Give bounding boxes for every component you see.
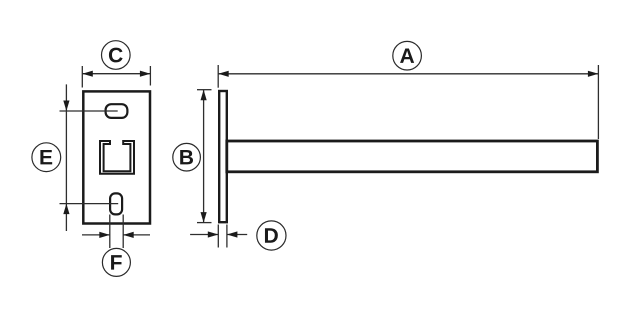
front view: top horizontal slot xyxy=(106,104,128,118)
front view: bottom vertical slot xyxy=(110,193,122,214)
side view: arm (long bar) xyxy=(227,141,598,172)
dimension B: dimension line with arrows xyxy=(201,90,207,223)
dimension E: dimension line with arrows xyxy=(63,84,69,231)
balloon C xyxy=(102,41,131,70)
balloon B xyxy=(173,143,201,171)
side view: plate (edge-on) xyxy=(219,91,227,222)
dimension B: extension lines xyxy=(197,90,212,223)
dimension A: extension lines xyxy=(218,65,598,139)
front view: mounting plate outline xyxy=(83,91,150,223)
balloon A xyxy=(393,41,422,70)
dimension C: dimension line with arrows xyxy=(82,71,150,77)
dimension E: extension lines xyxy=(60,111,119,204)
balloon F xyxy=(102,248,130,276)
balloon D xyxy=(257,221,286,250)
dimension C: extension lines xyxy=(82,66,150,88)
dimension D: dimension line with inward arrows xyxy=(190,231,247,237)
dimension F: extension lines xyxy=(110,215,123,249)
balloon E xyxy=(32,143,61,172)
dimension D: extension lines xyxy=(218,225,227,248)
dimension A: dimension line with arrows xyxy=(218,71,598,77)
front view: strut channel profile cutout xyxy=(100,141,134,174)
dimension F: dimension line with inward arrows xyxy=(82,232,150,238)
